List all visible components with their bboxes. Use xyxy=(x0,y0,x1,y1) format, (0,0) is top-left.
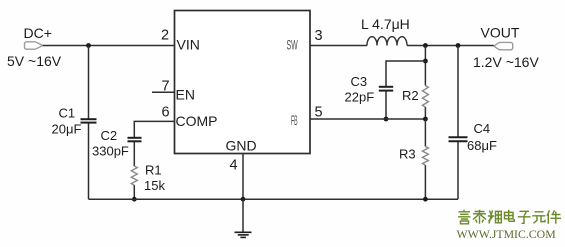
bottom rail wire xyxy=(89,198,459,200)
svg-text:2: 2 xyxy=(161,28,169,44)
svg-text:C1: C1 xyxy=(59,106,76,121)
svg-text:COMP: COMP xyxy=(176,113,218,129)
connector J1 DC+ xyxy=(25,42,43,49)
node SW/R2 junction xyxy=(423,43,428,48)
svg-text:VIN: VIN xyxy=(177,37,200,53)
IC U1 body xyxy=(175,11,311,154)
svg-text:1.2V ~16V: 1.2V ~16V xyxy=(473,54,539,70)
node C3 top tie xyxy=(423,59,428,64)
char 姆 xyxy=(488,210,502,223)
wire C3 bottom xyxy=(385,91,387,119)
svg-text:4: 4 xyxy=(230,158,238,174)
svg-text:GND: GND xyxy=(226,138,257,154)
svg-text:C4: C4 xyxy=(474,121,491,136)
svg-text:L 4.7μH: L 4.7μH xyxy=(361,16,410,32)
capacitor C2 xyxy=(128,137,142,139)
svg-text:SW: SW xyxy=(287,38,299,53)
node R1 bottom xyxy=(132,197,137,202)
svg-text:R2: R2 xyxy=(402,88,419,103)
connector J2 VOUT xyxy=(494,42,513,49)
wire GND pin to rail xyxy=(242,154,244,200)
capacitor C1 xyxy=(81,118,97,120)
node GND rail xyxy=(241,197,246,202)
svg-text:EN: EN xyxy=(176,87,195,103)
wire inductor to VOUT connector xyxy=(407,45,494,47)
svg-text:6: 6 xyxy=(162,105,170,121)
svg-text:VOUT: VOUT xyxy=(481,25,520,41)
wire R3 top xyxy=(424,119,426,147)
node R3 rail junction xyxy=(423,197,428,202)
svg-text:R1: R1 xyxy=(145,163,162,178)
node FB/R2/R3 junction xyxy=(423,117,428,122)
wire C1 to bottom rail xyxy=(88,123,90,199)
wire SW to inductor xyxy=(310,45,367,47)
char 嘉 xyxy=(458,210,471,224)
svg-text:5: 5 xyxy=(315,105,323,121)
wire R2 top branch xyxy=(424,46,426,86)
svg-text:3: 3 xyxy=(315,28,323,44)
capacitor C4 xyxy=(449,136,468,138)
wire C3 top xyxy=(386,61,425,86)
svg-text:330pF: 330pF xyxy=(92,144,129,159)
wire R3 bottom xyxy=(424,165,426,199)
wire COMP to C2 xyxy=(134,121,174,137)
node input junction xyxy=(86,43,91,48)
svg-text:68μF: 68μF xyxy=(467,138,497,153)
wire R2 bottom xyxy=(424,107,426,119)
char 件 xyxy=(547,210,561,224)
wire C2 to R1 xyxy=(133,142,135,166)
resistor R1 xyxy=(131,166,137,185)
svg-text:20μF: 20μF xyxy=(52,122,82,137)
wire FB xyxy=(310,118,425,120)
char 子 xyxy=(518,211,531,223)
svg-text:5V ~16V: 5V ~16V xyxy=(7,53,62,69)
svg-text:C2: C2 xyxy=(101,128,118,143)
wire R1 to bottom rail xyxy=(133,185,135,199)
node VOUT/C4 junction xyxy=(456,43,461,48)
pin stub EN (pin 7) xyxy=(152,91,175,93)
svg-text:WWW.JTMIC.COM: WWW.JTMIC.COM xyxy=(457,227,557,241)
svg-text:DC+: DC+ xyxy=(24,25,52,41)
char 电 xyxy=(505,210,515,222)
char 元 xyxy=(532,212,545,224)
resistor R3 xyxy=(422,147,428,166)
ground symbol xyxy=(235,231,252,233)
svg-text:R3: R3 xyxy=(399,147,416,162)
svg-text:7: 7 xyxy=(162,79,170,95)
svg-text:C3: C3 xyxy=(351,74,368,89)
watermark CJK text line (嘉泰姆电子元件 approximation) xyxy=(458,210,561,224)
wire C4 to bottom rail xyxy=(457,142,459,199)
capacitor C3 xyxy=(379,86,393,88)
resistor R2 xyxy=(422,86,428,108)
wire rail to ground symbol xyxy=(242,199,244,232)
inductor L coil xyxy=(367,37,407,46)
node C3/FB junction xyxy=(384,117,389,122)
wire input branch down to C1 xyxy=(88,46,90,119)
svg-text:22pF: 22pF xyxy=(345,90,375,105)
wire VOUT branch down to C4 xyxy=(457,46,459,137)
wire DC+ to VIN xyxy=(43,45,175,47)
char 泰 xyxy=(473,210,486,224)
svg-text:FB: FB xyxy=(291,113,298,129)
svg-text:15k: 15k xyxy=(144,178,165,193)
